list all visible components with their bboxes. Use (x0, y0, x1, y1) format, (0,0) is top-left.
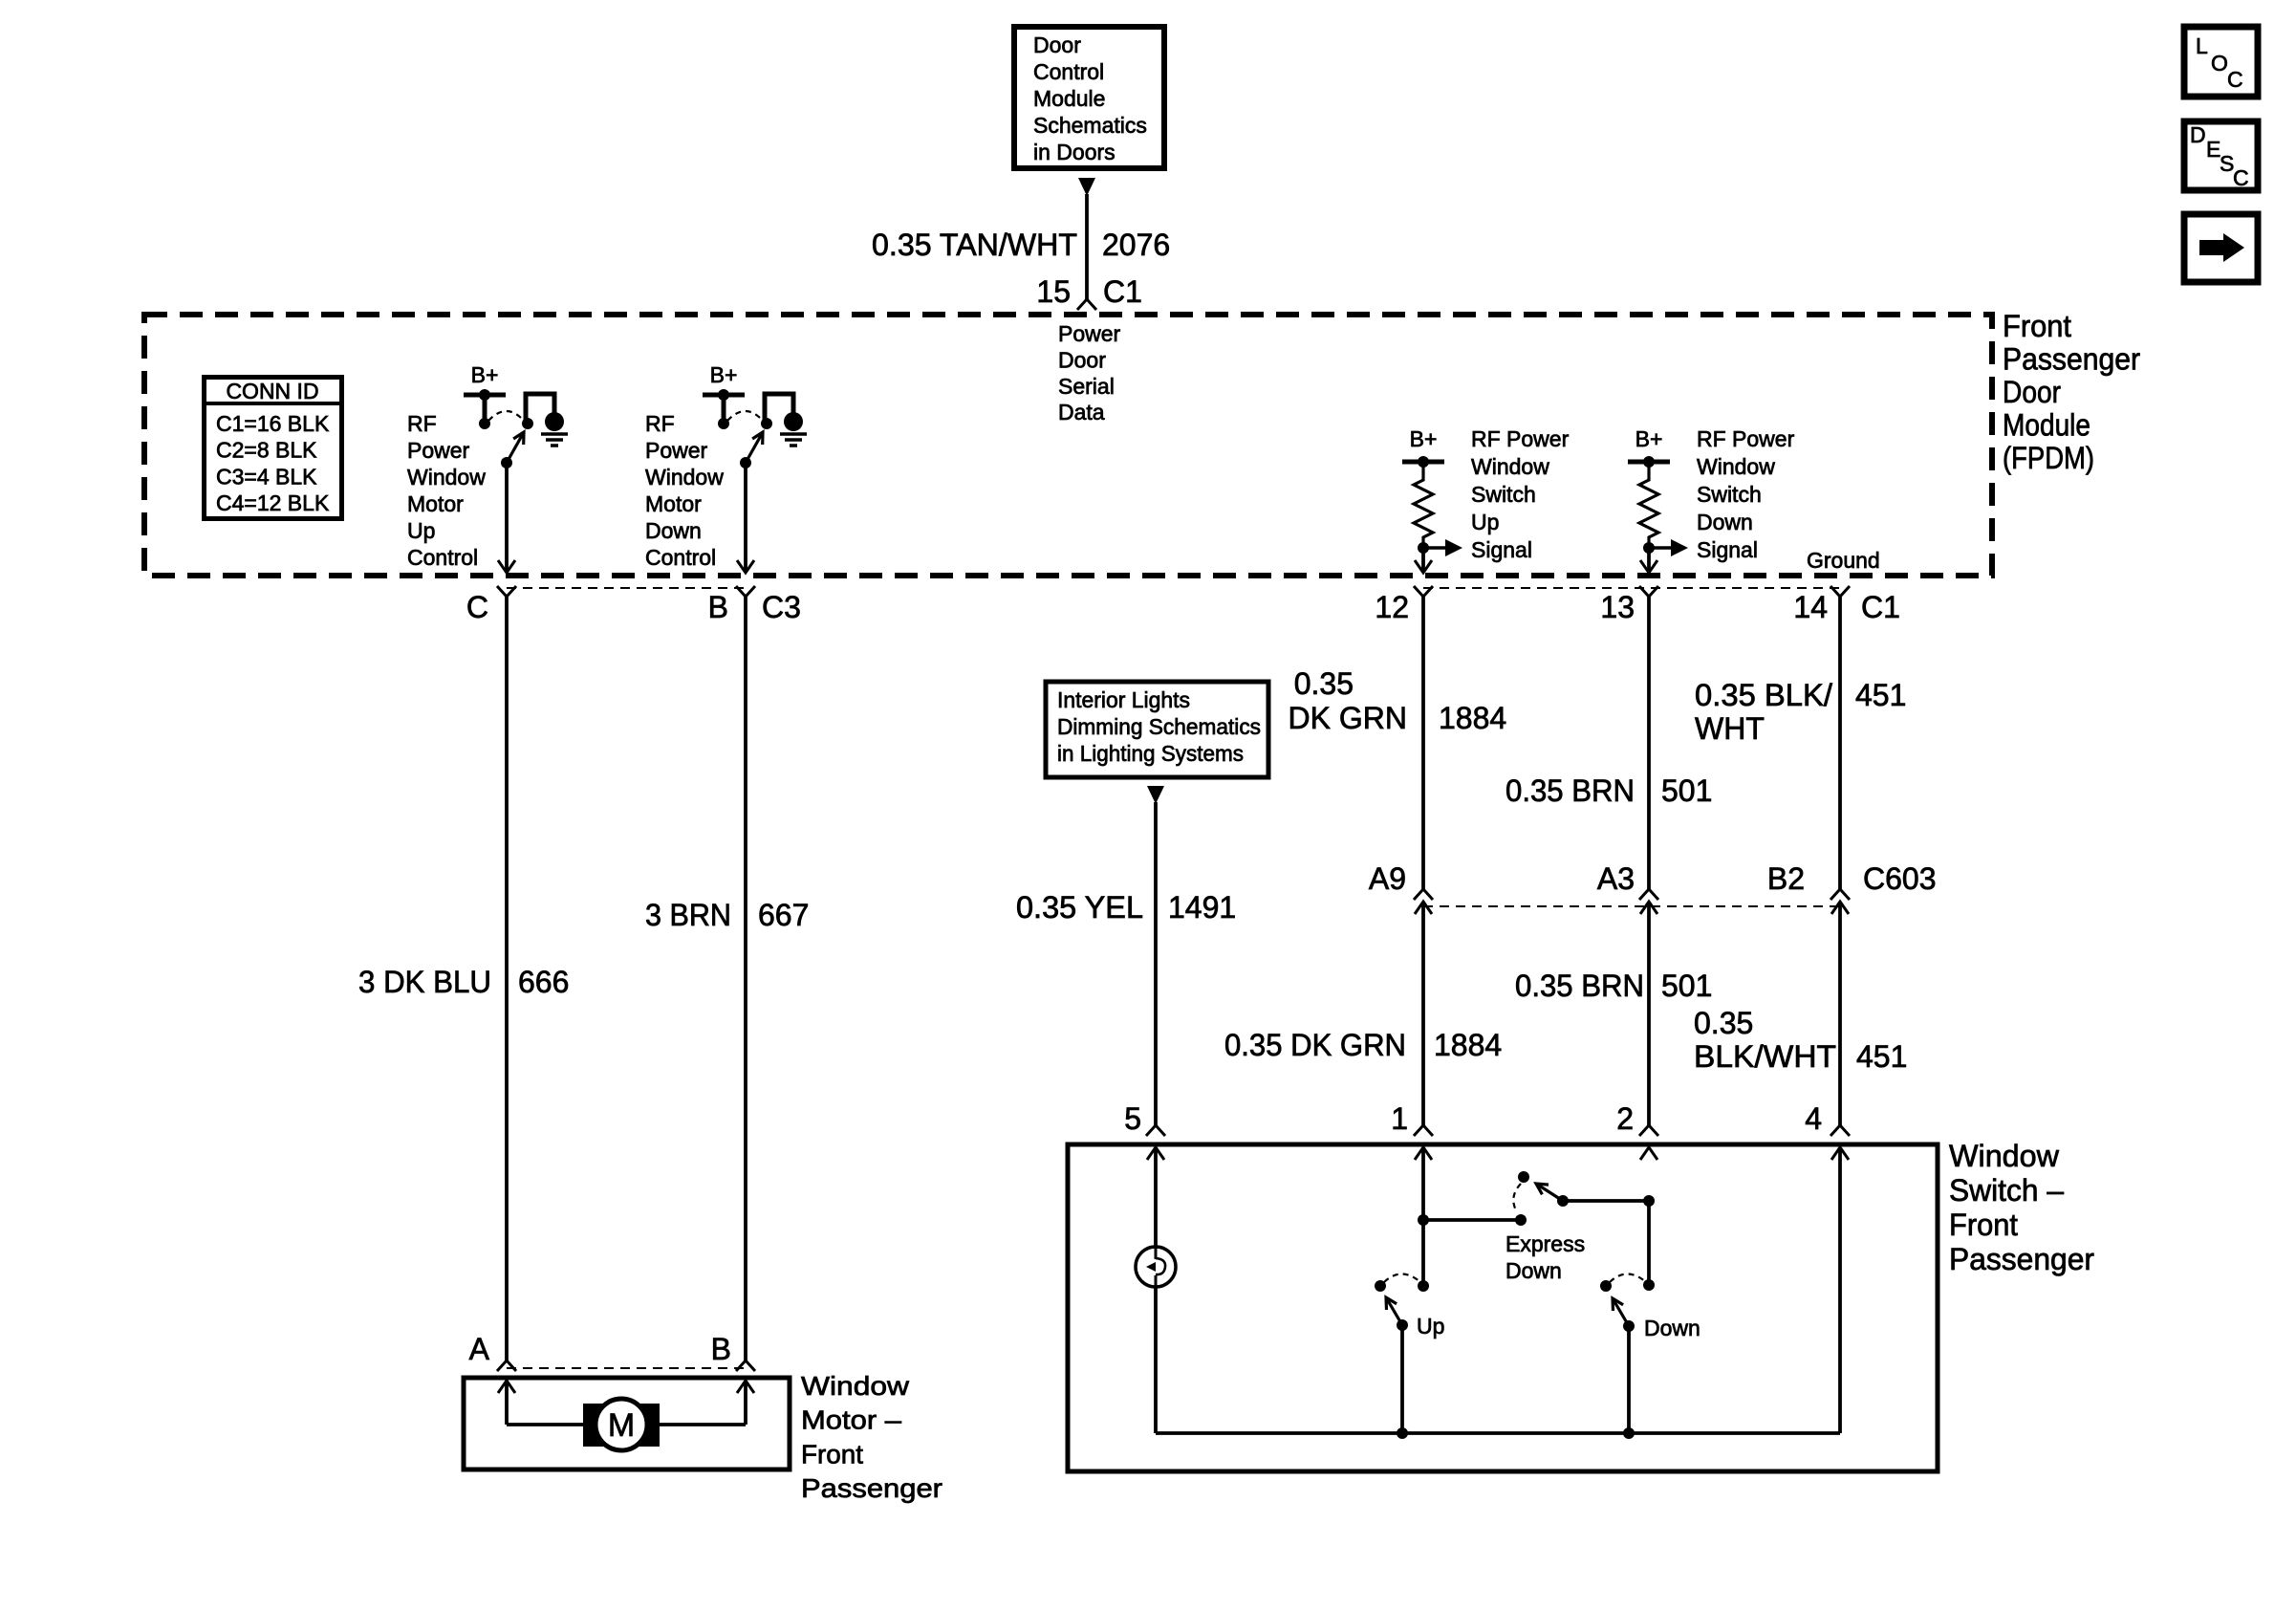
label 0.35 DK GRN 1884 lower (1224, 1028, 1502, 1062)
svg-text:C1: C1 (1103, 274, 1142, 309)
up switch wire junction (1418, 1280, 1429, 1292)
wire lamp to ground bus (1154, 1287, 1158, 1433)
pin labels C B C3 (466, 590, 801, 624)
label 0.35 BLK/WHT 451 lower (1694, 1006, 1907, 1074)
connector fork (RF power window switch up signal) (1414, 586, 1433, 597)
svg-text:(FPDM): (FPDM) (2003, 441, 2094, 475)
wire pin B to motor (660, 1381, 746, 1425)
arrow out of module (RF power window switch down signal) (1640, 560, 1657, 573)
arrow out of module (RF power window switch up signal) (1415, 560, 1432, 573)
wire 0.35 BRN 501 upper (1647, 597, 1651, 889)
junction (RF power window switch down signal) (1643, 542, 1655, 554)
switch arm (down control) (740, 432, 763, 468)
wire switch signal (RF power window switch down signal) (1647, 548, 1651, 572)
svg-text:0.35 TAN/WHT: 0.35 TAN/WHT (872, 228, 1077, 262)
label 0.35 TAN/WHT 2076 (872, 228, 1170, 262)
svg-text:B: B (708, 590, 728, 624)
svg-text:Door: Door (1058, 347, 1106, 372)
B+ supply terminal (RF power window switch down signal) (1628, 456, 1670, 468)
svg-text:2: 2 (1616, 1101, 1634, 1136)
motor M symbol (583, 1399, 660, 1450)
svg-text:A3: A3 (1597, 861, 1635, 896)
ground bracket (down control) (765, 394, 793, 424)
B+ supply terminal (down control) (703, 389, 745, 429)
svg-text:Window: Window (1949, 1139, 2060, 1173)
wire 3 BRN 667 (744, 597, 747, 1361)
junction express down feed (1418, 1214, 1429, 1226)
pin label 15 C1 (1036, 274, 1142, 309)
svg-text:Door: Door (1033, 33, 1081, 57)
svg-text:1884: 1884 (1439, 701, 1506, 735)
label RF power window switch down signal text (1697, 426, 1795, 562)
svg-text:0.35: 0.35 (1694, 1006, 1753, 1040)
label 3 BRN 667 (645, 898, 809, 932)
svg-text:RF Power: RF Power (1471, 426, 1570, 451)
svg-text:Down: Down (1697, 510, 1753, 534)
label 3 DK BLU 666 (358, 965, 569, 999)
svg-text:Door: Door (2003, 375, 2061, 409)
svg-text:1884: 1884 (1434, 1028, 1502, 1062)
icon LOC button (2184, 27, 2258, 97)
arrow out of module (down control) (737, 560, 754, 573)
ground bracket (up control) (526, 394, 554, 424)
entry arrows pins 5 1 2 4 (1147, 1147, 1849, 1160)
svg-text:WHT: WHT (1695, 711, 1765, 746)
label 0.35 BLK/WHT 451 upper (1695, 678, 1906, 746)
svg-text:0.35 BLK/: 0.35 BLK/ (1695, 678, 1832, 712)
B+ supply terminal (up control) (464, 389, 506, 429)
pin labels 12 13 14 C1 (1375, 590, 1900, 624)
svg-text:Motor: Motor (407, 491, 464, 516)
svg-text:RF: RF (407, 411, 437, 436)
svg-text:0.35 DK GRN: 0.35 DK GRN (1224, 1028, 1406, 1062)
label 0.35 BRN 501 lower (1515, 969, 1712, 1003)
svg-text:0.35 BRN: 0.35 BRN (1515, 969, 1644, 1003)
svg-text:Signal: Signal (1471, 537, 1532, 562)
svg-text:451: 451 (1856, 1039, 1907, 1074)
switch arm (up control) (501, 432, 524, 468)
pin labels A B (469, 1332, 731, 1366)
connector fork pin B (736, 1361, 755, 1371)
wire express arm to pin 2 (1563, 1195, 1655, 1207)
label 0.35 DK GRN 1884 upper (1289, 666, 1507, 735)
wire down switch to bus (1627, 1326, 1631, 1433)
wire 0.35 BLK/WHT 451 lower (1838, 902, 1842, 1125)
svg-text:B2: B2 (1767, 861, 1805, 896)
svg-text:Motor: Motor (645, 491, 702, 516)
wire 0.35 YEL 1491 (1154, 802, 1158, 1125)
svg-text:3 DK BLU: 3 DK BLU (358, 965, 491, 999)
wire express down fixed contact (1423, 1214, 1527, 1226)
svg-text:1491: 1491 (1168, 890, 1236, 925)
svg-text:C: C (466, 590, 488, 624)
label 0.35 BRN 501 upper (1505, 773, 1712, 808)
switch contact (up control) (522, 418, 533, 429)
connector forks pins 5 1 2 4 (1146, 1125, 1850, 1136)
svg-text:C2=8 BLK: C2=8 BLK (216, 438, 317, 463)
Window Switch box outline (1068, 1144, 1938, 1471)
label 0.35 YEL 1491 (1016, 890, 1236, 925)
svg-text:RF: RF (645, 411, 675, 436)
svg-text:501: 501 (1661, 969, 1712, 1003)
svg-text:501: 501 (1661, 773, 1712, 808)
down switch arm (1613, 1298, 1635, 1332)
ground symbol (down control) (780, 412, 807, 446)
svg-text:Dimming Schematics: Dimming Schematics (1057, 714, 1261, 739)
Window Motor box outline (464, 1378, 790, 1469)
wire lamp feed (1154, 1147, 1158, 1248)
svg-text:14: 14 (1793, 590, 1828, 624)
svg-text:Interior Lights: Interior Lights (1057, 687, 1190, 712)
entry arrows pins A B (498, 1381, 754, 1393)
thin dashed connector line C3 (507, 587, 746, 589)
wire pin 4 to ground bus (1838, 1147, 1842, 1433)
svg-text:Control: Control (407, 545, 478, 570)
connector fork pin A (497, 1361, 516, 1371)
bus junction up (1397, 1427, 1408, 1439)
svg-text:667: 667 (758, 898, 809, 932)
arrowhead from interior lights box (1147, 786, 1164, 804)
arrowhead from door control box (1078, 178, 1095, 196)
svg-text:Power: Power (645, 438, 708, 463)
svg-text:5: 5 (1124, 1101, 1141, 1136)
connector fork pin 14 ground (1830, 586, 1850, 597)
svg-text:D: D (2190, 122, 2206, 147)
svg-text:C: C (2227, 67, 2243, 92)
wire switch signal (RF power window switch up signal) (1421, 548, 1425, 572)
svg-text:Data: Data (1058, 400, 1105, 425)
svg-text:Up: Up (1471, 510, 1499, 534)
svg-text:12: 12 (1375, 590, 1409, 624)
label RF Power Window Motor Down Control (645, 411, 724, 570)
svg-text:B+: B+ (1635, 426, 1663, 451)
switch travel arc (down control) (727, 411, 763, 421)
wire serial data (1085, 194, 1089, 299)
svg-text:CONN ID: CONN ID (226, 379, 318, 403)
svg-text:Passenger: Passenger (2003, 342, 2140, 377)
pin labels 5 1 2 4 (1124, 1101, 1822, 1136)
svg-text:C1=16 BLK: C1=16 BLK (216, 411, 330, 436)
svg-text:0.35 YEL: 0.35 YEL (1016, 890, 1143, 925)
thin dashed connector line motor (507, 1367, 746, 1369)
svg-text:Up: Up (407, 518, 435, 543)
resistor (RF power window switch up signal) (1414, 462, 1433, 548)
svg-text:3 BRN: 3 BRN (645, 898, 731, 932)
connector fork (down control) (736, 586, 755, 597)
svg-text:Window: Window (1697, 454, 1775, 479)
switch contact (down control) (761, 418, 772, 429)
wire pin 1 to up switch (1421, 1147, 1425, 1286)
svg-text:15: 15 (1036, 274, 1071, 309)
svg-text:in Lighting Systems: in Lighting Systems (1057, 741, 1244, 766)
inline connector A9 (1414, 889, 1433, 914)
icon DESC button (2184, 121, 2258, 190)
svg-text:Power: Power (1058, 321, 1121, 346)
svg-text:in Doors: in Doors (1033, 140, 1116, 164)
svg-text:Passenger: Passenger (1949, 1242, 2094, 1276)
svg-text:Front: Front (2003, 309, 2071, 343)
svg-text:B+: B+ (471, 362, 499, 387)
up switch left contact (1375, 1280, 1386, 1292)
wire 0.35 DK GRN 1884 lower (1421, 902, 1425, 1125)
svg-text:B+: B+ (710, 362, 738, 387)
connector fork (up control) (497, 586, 516, 597)
Interior Lights Dimming reference box (1046, 682, 1268, 777)
svg-text:Front: Front (801, 1439, 863, 1469)
svg-text:BLK/WHT: BLK/WHT (1694, 1039, 1836, 1074)
svg-text:0.35: 0.35 (1294, 666, 1354, 701)
svg-text:Window: Window (645, 465, 724, 490)
svg-text:Switch –: Switch – (1949, 1173, 2064, 1208)
svg-text:Signal: Signal (1697, 537, 1758, 562)
svg-text:DK GRN: DK GRN (1289, 701, 1407, 735)
svg-text:Down: Down (1505, 1258, 1562, 1283)
wire pin A to motor (507, 1381, 583, 1425)
connector fork pin 15 (1077, 299, 1096, 310)
label RF power window switch up signal text (1471, 426, 1570, 562)
signal arrow (RF power window switch down signal) (1649, 539, 1688, 556)
wire 3 DK BLU 666 (505, 597, 509, 1361)
svg-text:0.35 BRN: 0.35 BRN (1505, 773, 1635, 808)
svg-text:Schematics: Schematics (1033, 113, 1147, 138)
label Window Switch - Front Passenger (1949, 1139, 2094, 1276)
svg-text:4: 4 (1805, 1101, 1822, 1136)
junction (RF power window switch up signal) (1418, 542, 1429, 554)
svg-text:Up: Up (1417, 1314, 1444, 1339)
labels A9 A3 B2 C603 (1369, 861, 1937, 896)
svg-text:M: M (608, 1407, 635, 1444)
svg-text:2076: 2076 (1102, 228, 1170, 262)
wire motor up control control (505, 463, 509, 572)
inline connector B2 (1830, 889, 1850, 914)
label Power Door Serial Data (1058, 321, 1121, 425)
svg-text:RF Power: RF Power (1697, 426, 1795, 451)
wire up switch to bus (1400, 1325, 1404, 1433)
label RF Power Window Motor Up Control (407, 411, 486, 570)
wire 0.35 BRN 501 lower (1647, 902, 1651, 1125)
svg-text:C603: C603 (1863, 861, 1937, 896)
svg-text:Switch: Switch (1697, 482, 1762, 507)
svg-text:Window: Window (801, 1371, 910, 1401)
svg-text:A9: A9 (1369, 861, 1406, 896)
svg-text:Down: Down (1644, 1316, 1700, 1340)
svg-text:O: O (2211, 51, 2228, 76)
svg-text:Window: Window (1471, 454, 1549, 479)
svg-text:Express: Express (1505, 1231, 1585, 1256)
Front Passenger Door Module dashed outline (144, 315, 1992, 576)
up switch travel arc (1384, 1274, 1420, 1283)
svg-text:1: 1 (1391, 1101, 1408, 1136)
CONN ID table (202, 378, 344, 519)
resistor (RF power window switch down signal) (1639, 462, 1658, 548)
wire 0.35 BLK/WHT 451 upper (1838, 597, 1842, 889)
svg-text:Window: Window (407, 465, 486, 490)
Door Control Module Schematics in Doors reference box (1014, 27, 1164, 168)
arrow out of module (up control) (498, 560, 515, 573)
svg-text:C3=4 BLK: C3=4 BLK (216, 464, 317, 489)
bus junction down (1623, 1427, 1635, 1439)
wire pin 2 to down switch (1647, 1201, 1651, 1285)
svg-text:B+: B+ (1410, 426, 1438, 451)
svg-text:Motor –: Motor – (801, 1405, 901, 1435)
svg-text:C1: C1 (1861, 590, 1900, 624)
signal arrow (RF power window switch up signal) (1423, 539, 1462, 556)
express down upper contact (1518, 1171, 1529, 1183)
svg-text:L: L (2196, 33, 2208, 58)
svg-text:Control: Control (1033, 59, 1104, 84)
svg-text:B: B (711, 1332, 731, 1366)
svg-text:Power: Power (407, 438, 470, 463)
svg-text:Down: Down (645, 518, 702, 543)
down switch left contact (1600, 1280, 1612, 1292)
switch travel arc (up control) (488, 411, 524, 421)
svg-text:666: 666 (518, 965, 569, 999)
svg-text:Control: Control (645, 545, 716, 570)
svg-text:C4=12 BLK: C4=12 BLK (216, 490, 330, 515)
svg-text:13: 13 (1600, 590, 1635, 624)
svg-text:Switch: Switch (1471, 482, 1536, 507)
svg-text:Passenger: Passenger (801, 1473, 942, 1503)
inline connector C603 dashed line (1423, 905, 1840, 907)
ground symbol (up control) (541, 412, 568, 446)
up switch arm (1386, 1297, 1408, 1331)
inline connector A3 (1639, 889, 1658, 914)
wire 0.35 DK GRN 1884 upper (1421, 597, 1425, 889)
svg-text:451: 451 (1855, 678, 1906, 712)
label Front Passenger Door Module (FPDM) (2003, 309, 2140, 475)
express down travel arc (1513, 1184, 1521, 1212)
svg-text:A: A (469, 1332, 490, 1366)
connector fork (RF power window switch down signal) (1639, 586, 1658, 597)
wire motor down control control (744, 463, 747, 572)
svg-text:C: C (2233, 165, 2249, 190)
ground bus (1156, 1431, 1840, 1435)
svg-text:C3: C3 (762, 590, 801, 624)
thin dashed connector line C1 (1423, 587, 1840, 589)
down switch wire junction (1643, 1279, 1655, 1291)
svg-text:Module: Module (2003, 408, 2090, 443)
svg-text:Front: Front (1949, 1208, 2018, 1242)
express down switch arm (1536, 1184, 1569, 1207)
svg-text:Serial: Serial (1058, 374, 1115, 399)
label Express Down (1505, 1231, 1585, 1283)
interior illumination lamp (1136, 1247, 1176, 1287)
label Window Motor - Front Passenger (801, 1371, 942, 1503)
svg-text:Ground: Ground (1807, 548, 1880, 573)
icon forward arrow button (2184, 214, 2258, 282)
B+ supply terminal (RF power window switch up signal) (1402, 456, 1444, 468)
down switch travel arc (1610, 1274, 1646, 1283)
svg-text:Module: Module (1033, 86, 1105, 111)
